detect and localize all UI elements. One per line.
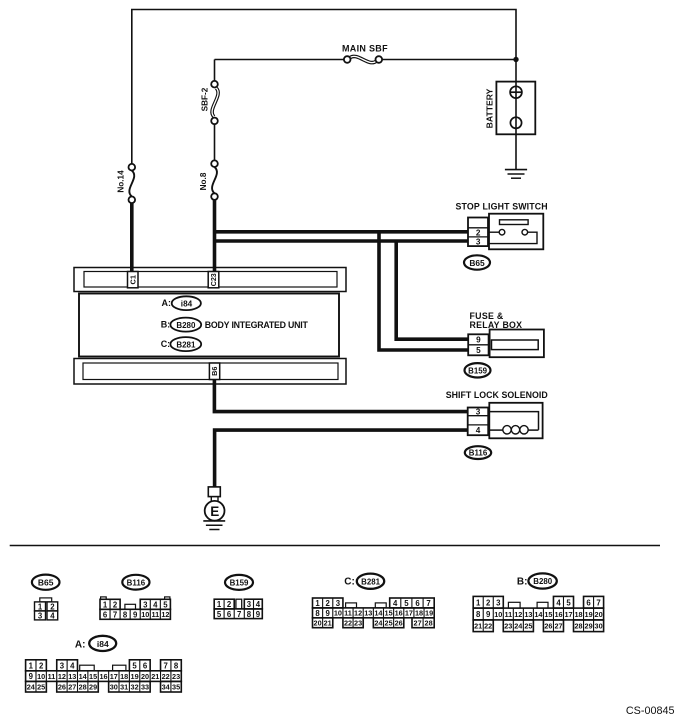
svg-text:29: 29 <box>89 683 97 692</box>
svg-text:27: 27 <box>68 683 76 692</box>
svg-text:SHIFT LOCK SOLENOID: SHIFT LOCK SOLENOID <box>446 390 548 400</box>
svg-text:12: 12 <box>514 610 522 619</box>
svg-text:13: 13 <box>524 610 532 619</box>
svg-text:17: 17 <box>405 609 413 618</box>
svg-text:10: 10 <box>334 609 342 618</box>
svg-text:7: 7 <box>113 610 117 619</box>
svg-text:6: 6 <box>415 599 420 608</box>
svg-text:8: 8 <box>123 610 128 619</box>
svg-text:28: 28 <box>574 622 582 631</box>
svg-text:4: 4 <box>556 598 561 607</box>
svg-text:21: 21 <box>324 619 332 628</box>
svg-text:22: 22 <box>344 619 352 628</box>
svg-text:C:: C: <box>344 576 355 587</box>
svg-text:B65: B65 <box>38 578 54 588</box>
svg-text:3: 3 <box>143 600 148 609</box>
svg-text:14: 14 <box>534 610 543 619</box>
svg-text:2: 2 <box>227 600 232 609</box>
svg-text:23: 23 <box>172 672 180 681</box>
svg-text:A:: A: <box>75 639 86 650</box>
svg-text:7: 7 <box>237 610 241 619</box>
svg-text:30: 30 <box>110 683 118 692</box>
svg-text:3: 3 <box>336 599 341 608</box>
svg-text:CS-00845: CS-00845 <box>626 705 675 717</box>
svg-text:6: 6 <box>103 610 108 619</box>
svg-text:2: 2 <box>486 598 491 607</box>
svg-text:11: 11 <box>151 610 159 619</box>
svg-text:6: 6 <box>143 661 148 670</box>
svg-text:31: 31 <box>120 683 128 692</box>
svg-text:27: 27 <box>414 619 422 628</box>
svg-text:12: 12 <box>58 672 66 681</box>
svg-text:26: 26 <box>544 622 552 631</box>
svg-text:5: 5 <box>217 610 222 619</box>
svg-text:21: 21 <box>151 672 159 681</box>
svg-text:22: 22 <box>162 672 170 681</box>
svg-text:B6: B6 <box>210 367 219 376</box>
svg-text:4: 4 <box>393 599 398 608</box>
svg-text:BATTERY: BATTERY <box>484 88 494 128</box>
svg-text:5: 5 <box>404 599 409 608</box>
svg-text:4: 4 <box>50 612 55 621</box>
svg-text:9: 9 <box>133 610 138 619</box>
svg-text:10: 10 <box>37 672 45 681</box>
svg-text:1: 1 <box>217 600 222 609</box>
svg-text:17: 17 <box>110 672 118 681</box>
svg-text:9: 9 <box>476 336 481 345</box>
svg-text:BODY INTEGRATED UNIT: BODY INTEGRATED UNIT <box>205 320 309 330</box>
svg-text:15: 15 <box>385 609 393 618</box>
svg-text:1: 1 <box>315 599 320 608</box>
svg-text:5: 5 <box>132 661 137 670</box>
svg-text:20: 20 <box>595 610 603 619</box>
svg-text:7: 7 <box>426 599 430 608</box>
svg-text:1: 1 <box>103 600 108 609</box>
svg-text:9: 9 <box>29 672 34 681</box>
svg-text:21: 21 <box>474 622 482 631</box>
svg-text:4: 4 <box>153 600 158 609</box>
svg-text:6: 6 <box>227 610 232 619</box>
svg-text:13: 13 <box>364 609 372 618</box>
svg-text:1: 1 <box>476 598 481 607</box>
svg-text:14: 14 <box>79 672 88 681</box>
svg-text:28: 28 <box>425 619 433 628</box>
svg-text:26: 26 <box>395 619 403 628</box>
svg-text:2: 2 <box>113 600 118 609</box>
svg-text:25: 25 <box>524 622 532 631</box>
svg-text:27: 27 <box>554 622 562 631</box>
svg-text:5: 5 <box>476 346 481 355</box>
svg-text:5: 5 <box>163 600 168 609</box>
svg-text:24: 24 <box>514 622 523 631</box>
svg-text:15: 15 <box>89 672 97 681</box>
svg-text:A:: A: <box>162 298 172 308</box>
svg-text:5: 5 <box>566 598 571 607</box>
svg-text:29: 29 <box>585 622 593 631</box>
svg-text:B280: B280 <box>176 321 196 330</box>
svg-text:STOP LIGHT SWITCH: STOP LIGHT SWITCH <box>456 202 548 212</box>
svg-text:14: 14 <box>374 609 383 618</box>
svg-text:B116: B116 <box>469 449 488 458</box>
svg-text:23: 23 <box>504 622 512 631</box>
svg-text:26: 26 <box>58 683 66 692</box>
svg-text:B159: B159 <box>468 366 487 375</box>
svg-text:C:: C: <box>161 339 171 349</box>
svg-text:2: 2 <box>476 228 481 237</box>
svg-text:B280: B280 <box>533 577 552 586</box>
svg-text:i84: i84 <box>181 299 193 308</box>
svg-text:28: 28 <box>79 683 87 692</box>
svg-text:35: 35 <box>172 683 180 692</box>
svg-text:20: 20 <box>141 672 149 681</box>
svg-text:8: 8 <box>476 610 481 619</box>
svg-text:20: 20 <box>314 619 322 628</box>
svg-text:C1: C1 <box>129 275 138 284</box>
svg-text:3: 3 <box>38 612 43 621</box>
svg-text:B281: B281 <box>361 577 380 586</box>
svg-text:1: 1 <box>29 661 34 670</box>
svg-text:10: 10 <box>494 610 502 619</box>
svg-text:19: 19 <box>131 672 139 681</box>
svg-text:B:: B: <box>161 320 171 330</box>
svg-text:18: 18 <box>120 672 128 681</box>
svg-text:1: 1 <box>38 603 43 612</box>
svg-text:3: 3 <box>476 238 481 247</box>
svg-text:11: 11 <box>344 609 352 618</box>
svg-text:8: 8 <box>174 661 179 670</box>
svg-text:E: E <box>210 504 219 519</box>
svg-text:6: 6 <box>586 598 591 607</box>
svg-text:24: 24 <box>374 619 383 628</box>
svg-text:7: 7 <box>164 661 168 670</box>
svg-text:9: 9 <box>326 609 331 618</box>
svg-text:SBF-2: SBF-2 <box>201 87 210 111</box>
svg-text:4: 4 <box>256 600 261 609</box>
svg-text:3: 3 <box>247 600 252 609</box>
svg-text:18: 18 <box>574 610 582 619</box>
svg-text:i84: i84 <box>97 639 109 649</box>
svg-text:32: 32 <box>131 683 139 692</box>
svg-text:11: 11 <box>48 672 56 681</box>
svg-text:11: 11 <box>504 610 512 619</box>
svg-text:8: 8 <box>247 610 252 619</box>
svg-text:No.14: No.14 <box>116 170 125 193</box>
svg-text:25: 25 <box>37 683 45 692</box>
svg-text:30: 30 <box>595 622 603 631</box>
svg-text:7: 7 <box>596 598 600 607</box>
svg-text:16: 16 <box>554 610 562 619</box>
svg-text:33: 33 <box>141 683 149 692</box>
svg-text:9: 9 <box>486 610 491 619</box>
svg-text:13: 13 <box>68 672 76 681</box>
svg-text:8: 8 <box>315 609 320 618</box>
svg-text:22: 22 <box>484 622 492 631</box>
svg-text:2: 2 <box>50 603 55 612</box>
svg-text:B:: B: <box>517 576 528 587</box>
svg-text:25: 25 <box>385 619 393 628</box>
svg-text:23: 23 <box>354 619 362 628</box>
svg-text:4: 4 <box>476 426 481 435</box>
svg-text:17: 17 <box>564 610 572 619</box>
svg-text:B281: B281 <box>176 340 196 349</box>
svg-text:3: 3 <box>476 408 481 417</box>
svg-text:16: 16 <box>395 609 403 618</box>
svg-text:2: 2 <box>326 599 331 608</box>
svg-text:9: 9 <box>256 610 261 619</box>
svg-text:MAIN SBF: MAIN SBF <box>342 43 388 53</box>
svg-text:4: 4 <box>70 661 75 670</box>
svg-text:C23: C23 <box>210 273 218 286</box>
svg-text:B159: B159 <box>230 579 249 588</box>
svg-text:24: 24 <box>27 683 36 692</box>
svg-text:16: 16 <box>99 672 107 681</box>
svg-text:18: 18 <box>415 609 423 618</box>
svg-text:34: 34 <box>162 683 171 692</box>
svg-text:12: 12 <box>354 609 362 618</box>
svg-text:3: 3 <box>496 598 501 607</box>
svg-text:No.8: No.8 <box>199 172 208 190</box>
svg-text:B65: B65 <box>469 258 485 268</box>
svg-text:RELAY BOX: RELAY BOX <box>470 320 523 330</box>
svg-text:2: 2 <box>39 661 44 670</box>
svg-text:19: 19 <box>585 610 593 619</box>
svg-text:10: 10 <box>141 610 149 619</box>
svg-text:15: 15 <box>544 610 552 619</box>
svg-text:12: 12 <box>161 610 169 619</box>
svg-text:B116: B116 <box>127 578 146 587</box>
svg-text:3: 3 <box>60 661 65 670</box>
svg-text:19: 19 <box>425 609 433 618</box>
